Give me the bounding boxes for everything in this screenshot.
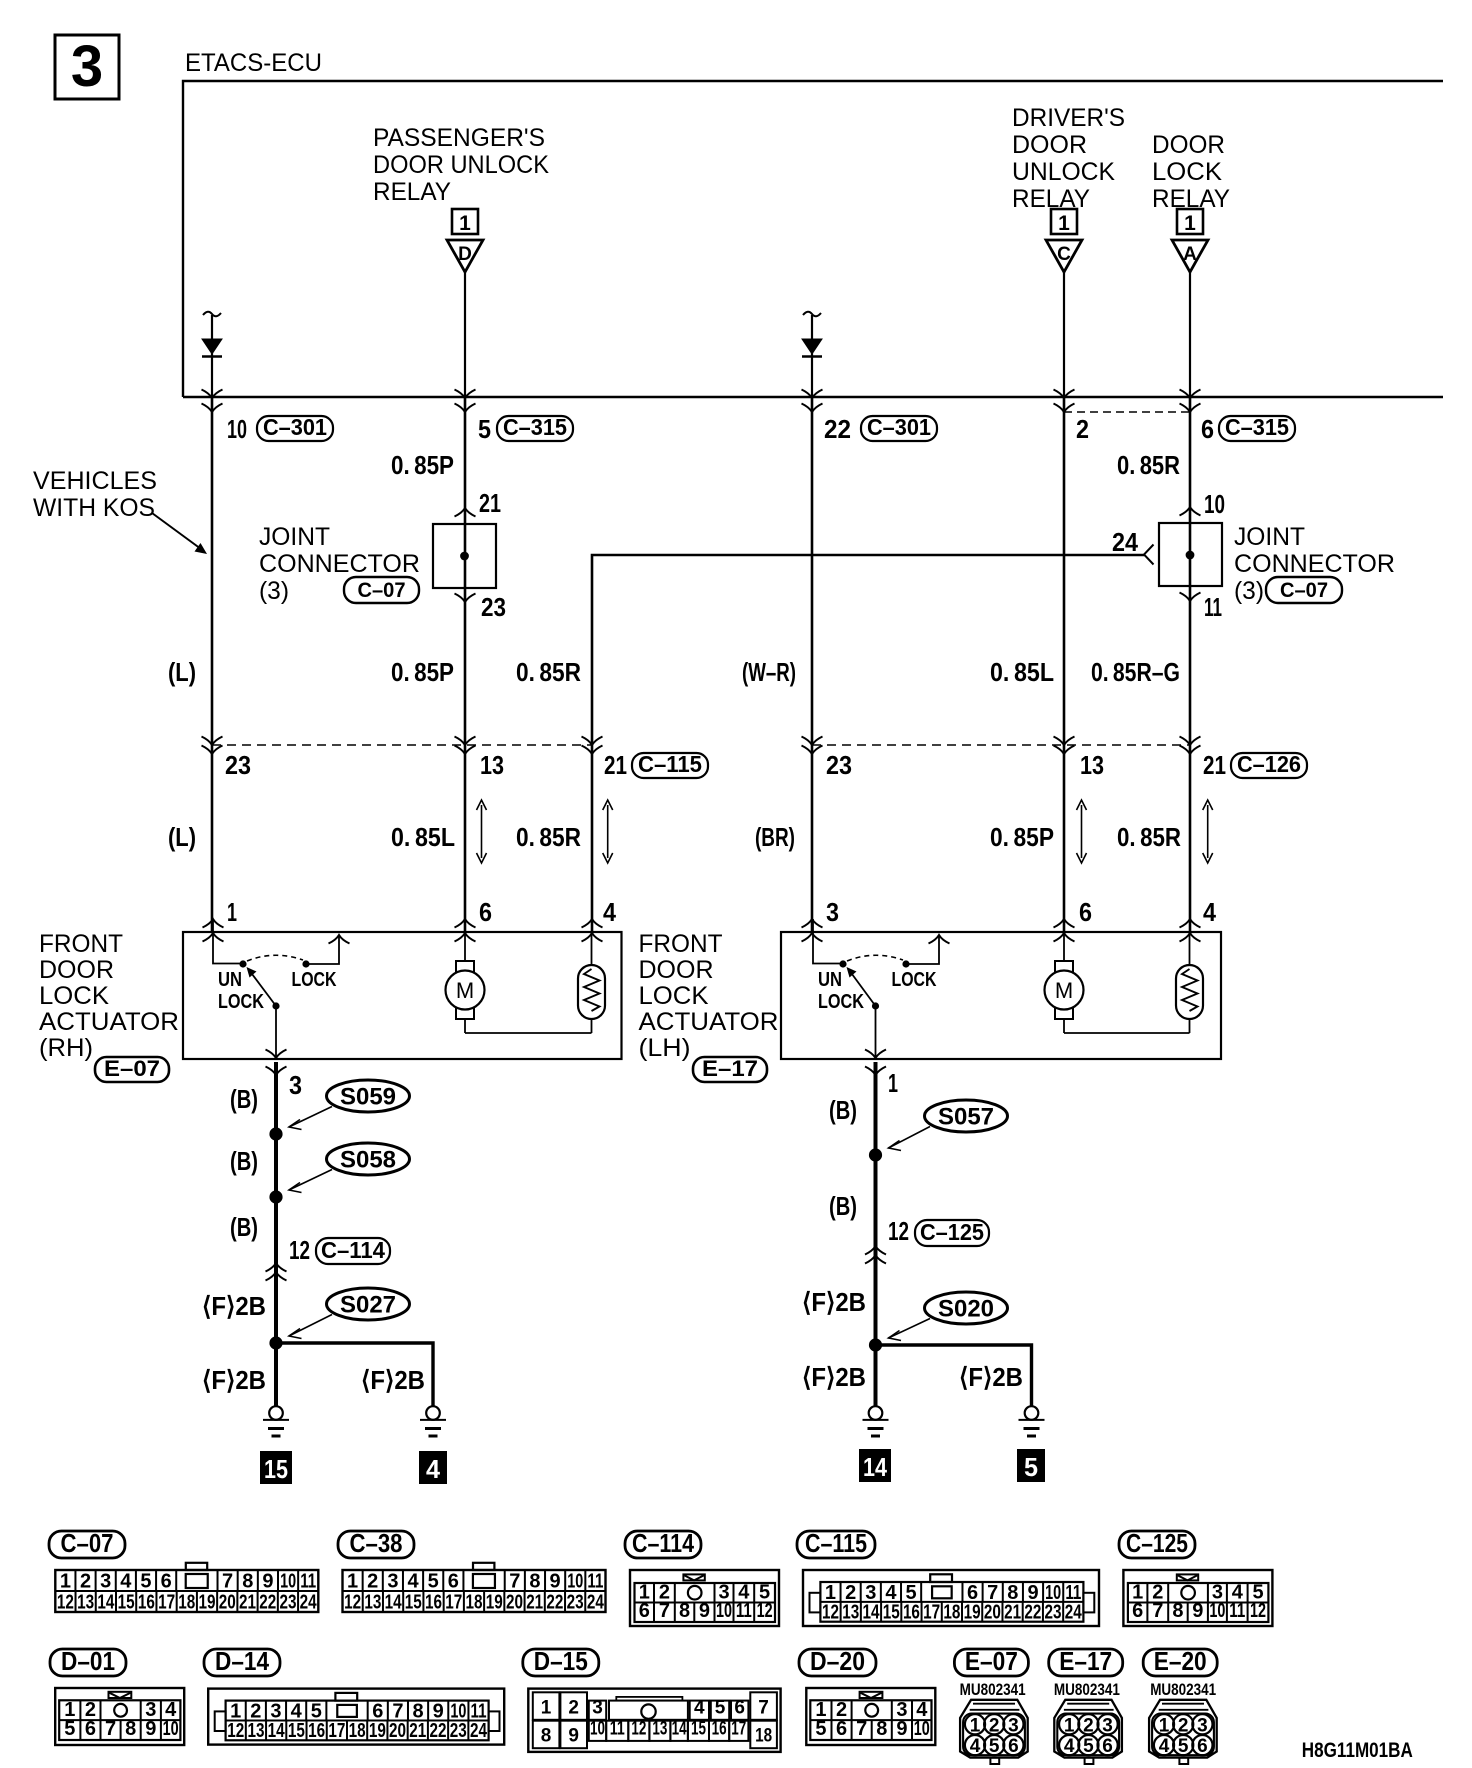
svg-text:⟨F⟩2B: ⟨F⟩2B xyxy=(202,1365,266,1395)
svg-text:D–14: D–14 xyxy=(215,1646,269,1676)
svg-text:6: 6 xyxy=(1079,897,1092,927)
svg-text:21: 21 xyxy=(1004,1602,1021,1624)
ETACS-ECU box outline (open right side) xyxy=(183,81,1443,397)
pin 24 label xyxy=(1112,527,1138,557)
svg-text:S059: S059 xyxy=(340,1084,396,1111)
svg-text:D–15: D–15 xyxy=(534,1646,588,1676)
svg-text:UN: UN xyxy=(218,969,242,991)
svg-text:24: 24 xyxy=(300,1592,318,1614)
connector view E-20 label xyxy=(1143,1646,1217,1676)
svg-text:C–301: C–301 xyxy=(263,414,327,440)
lock motor M actuator LH xyxy=(1045,933,1084,1033)
svg-text:LOCK: LOCK xyxy=(292,969,337,991)
svg-text:22: 22 xyxy=(546,1592,563,1614)
svg-text:5: 5 xyxy=(478,414,491,444)
branch wire to second ground right xyxy=(876,1345,1032,1406)
connector crossing arrows at ECU bottom edge xyxy=(202,390,1201,413)
svg-text:12: 12 xyxy=(888,1216,909,1246)
door lock relay symbol (1/A) xyxy=(1172,209,1208,272)
svg-text:MU802341: MU802341 xyxy=(1150,1680,1216,1699)
svg-text:C–38: C–38 xyxy=(350,1528,403,1558)
svg-text:16: 16 xyxy=(903,1602,920,1624)
FRONT DOOR LOCK ACTUATOR (LH) label xyxy=(639,930,779,1062)
pin label 3 actuator LH xyxy=(826,897,839,927)
wire color (B) 2 xyxy=(230,1146,258,1176)
svg-text:LOCK: LOCK xyxy=(39,982,109,1010)
svg-text:11: 11 xyxy=(300,1571,316,1593)
inline connector C-125 arrows xyxy=(865,1246,886,1264)
wire 10(C-301) KOS (L) left, x=212 xyxy=(211,397,214,932)
svg-text:LOCK: LOCK xyxy=(218,991,264,1013)
svg-text:0. 85L: 0. 85L xyxy=(391,822,455,852)
solenoid coil actuator LH xyxy=(1176,933,1203,1033)
wire size label 0.85R upper xyxy=(1117,450,1180,480)
svg-text:E–20: E–20 xyxy=(1154,1646,1207,1676)
svg-text:13: 13 xyxy=(652,1718,667,1739)
ETACS-ECU title xyxy=(185,49,322,77)
svg-text:0. 85R: 0. 85R xyxy=(1117,822,1181,852)
splice S058 xyxy=(289,1143,410,1193)
svg-text:M: M xyxy=(1055,978,1073,1003)
driver door unlock relay symbol (1/C) xyxy=(1046,209,1082,272)
junction dot S059 xyxy=(269,1127,282,1140)
svg-text:14: 14 xyxy=(385,1592,403,1614)
svg-text:9: 9 xyxy=(262,1571,273,1593)
DOOR LOCK RELAY label xyxy=(1152,131,1230,213)
svg-text:4: 4 xyxy=(426,1454,441,1484)
svg-text:12: 12 xyxy=(227,1720,244,1742)
dashed connector boundary line right (C-126) xyxy=(812,744,1190,746)
svg-text:9: 9 xyxy=(699,1600,710,1622)
svg-text:22: 22 xyxy=(824,414,851,444)
svg-text:13: 13 xyxy=(480,750,504,780)
svg-text:7: 7 xyxy=(1152,1600,1163,1622)
svg-text:(L): (L) xyxy=(168,822,196,852)
svg-text:18: 18 xyxy=(943,1602,960,1624)
svg-text:⟨F⟩2B: ⟨F⟩2B xyxy=(802,1287,866,1317)
pin label 4 actuator LH xyxy=(1203,897,1216,927)
svg-text:C–07: C–07 xyxy=(61,1528,114,1558)
svg-text:(B): (B) xyxy=(829,1095,857,1125)
ground wire (B) from actuator RH pin 3 xyxy=(274,1062,278,1406)
svg-text:8: 8 xyxy=(1172,1600,1183,1622)
svg-text:DOOR: DOOR xyxy=(39,956,114,984)
pin label 1 xyxy=(888,1068,898,1098)
svg-text:13: 13 xyxy=(1080,750,1104,780)
svg-text:JOINT: JOINT xyxy=(1234,523,1305,551)
svg-text:23: 23 xyxy=(279,1592,296,1614)
svg-text:S027: S027 xyxy=(340,1292,396,1319)
svg-text:4: 4 xyxy=(603,897,616,927)
DRIVER'S DOOR UNLOCK RELAY label xyxy=(1012,104,1125,213)
inline connector C-114 arrows xyxy=(266,1263,287,1281)
svg-text:(L): (L) xyxy=(168,657,196,687)
svg-text:(B): (B) xyxy=(230,1084,258,1114)
svg-text:3: 3 xyxy=(826,897,839,927)
svg-text:7: 7 xyxy=(222,1571,233,1593)
svg-text:CONNECTOR: CONNECTOR xyxy=(259,550,420,578)
wire color label (W-R) row1 xyxy=(742,657,796,687)
svg-text:7: 7 xyxy=(758,1697,769,1718)
svg-text:FRONT: FRONT xyxy=(39,930,123,958)
pin label 22 (C-301) xyxy=(824,414,937,444)
svg-text:6: 6 xyxy=(479,897,492,927)
svg-text:14: 14 xyxy=(97,1592,115,1614)
branch wire to second ground xyxy=(276,1343,433,1406)
svg-text:C–315: C–315 xyxy=(503,414,567,440)
pin 10 arrow into joint connector xyxy=(1180,507,1201,516)
svg-text:12: 12 xyxy=(344,1592,361,1614)
svg-text:MU802341: MU802341 xyxy=(1054,1680,1120,1699)
svg-text:LOCK: LOCK xyxy=(818,991,864,1013)
svg-text:12: 12 xyxy=(631,1718,646,1739)
svg-text:C–114: C–114 xyxy=(321,1237,385,1263)
wire label F 2B 1 xyxy=(202,1291,266,1321)
svg-text:21: 21 xyxy=(526,1592,543,1614)
JOINT CONNECTOR (3) C-07 label left xyxy=(259,523,420,605)
svg-text:24: 24 xyxy=(587,1592,605,1614)
joint connector C-07 (right) box xyxy=(1159,523,1222,586)
svg-text:(LH): (LH) xyxy=(639,1034,691,1062)
svg-text:5: 5 xyxy=(715,1697,726,1718)
svg-text:C–115: C–115 xyxy=(638,751,702,777)
connector view C-38 pinout xyxy=(343,1563,606,1614)
svg-text:D: D xyxy=(458,244,472,265)
E-17 tag xyxy=(693,1056,767,1082)
svg-text:20: 20 xyxy=(219,1592,236,1614)
svg-text:3: 3 xyxy=(100,1571,111,1593)
svg-text:21: 21 xyxy=(1203,750,1226,780)
svg-text:2: 2 xyxy=(1076,414,1089,444)
svg-text:(3): (3) xyxy=(259,577,289,605)
svg-text:23: 23 xyxy=(567,1592,584,1614)
svg-text:1: 1 xyxy=(459,212,471,235)
svg-text:9: 9 xyxy=(1192,1600,1203,1622)
svg-text:11: 11 xyxy=(1204,592,1222,622)
exit arrows actuator LH pin 1 xyxy=(865,1050,886,1076)
svg-text:10: 10 xyxy=(567,1571,583,1593)
UN LOCK / LOCK labels RH xyxy=(218,969,337,1013)
svg-text:6: 6 xyxy=(448,1571,459,1593)
pin 11 arrow out of joint connector xyxy=(1180,593,1201,602)
svg-text:0. 85L: 0. 85L xyxy=(990,657,1054,687)
svg-text:19: 19 xyxy=(964,1602,981,1624)
svg-text:18: 18 xyxy=(466,1592,483,1614)
svg-text:⟨F⟩2B: ⟨F⟩2B xyxy=(202,1291,266,1321)
pin 21 label xyxy=(479,488,501,518)
svg-text:ACTUATOR: ACTUATOR xyxy=(639,1008,779,1036)
svg-text:15: 15 xyxy=(405,1592,422,1614)
svg-text:MU802341: MU802341 xyxy=(960,1680,1026,1699)
connector view E-17 pinout xyxy=(1054,1700,1122,1764)
svg-text:18: 18 xyxy=(178,1592,195,1614)
pin 10 label xyxy=(1204,489,1225,519)
wire 22(C-301) (W-R) right, x=812 xyxy=(811,397,814,932)
svg-text:10: 10 xyxy=(716,1600,732,1622)
junction dot S020 xyxy=(869,1338,882,1351)
wire 6(C-315) 0.85R door lock, x=1190 xyxy=(1189,397,1192,932)
svg-text:(3): (3) xyxy=(1234,577,1264,605)
lock motor M actuator RH xyxy=(446,933,485,1033)
pin label 13 (left) xyxy=(480,750,504,780)
svg-text:(B): (B) xyxy=(230,1146,258,1176)
crossing arrows at dashed boundary xyxy=(202,737,1201,755)
svg-text:14: 14 xyxy=(672,1718,687,1739)
junction dot S058 xyxy=(269,1190,282,1203)
junction dot S057 xyxy=(869,1148,882,1161)
svg-text:ETACS-ECU: ETACS-ECU xyxy=(185,49,322,77)
svg-text:3: 3 xyxy=(592,1697,603,1718)
svg-text:20: 20 xyxy=(389,1720,406,1742)
svg-text:E–17: E–17 xyxy=(1059,1646,1112,1676)
svg-text:4: 4 xyxy=(120,1571,132,1593)
svg-text:D–20: D–20 xyxy=(810,1646,865,1676)
svg-text:16: 16 xyxy=(712,1718,727,1739)
pin label 2 xyxy=(1076,414,1089,444)
svg-text:23: 23 xyxy=(481,592,506,622)
svg-text:15: 15 xyxy=(691,1718,706,1739)
svg-text:12: 12 xyxy=(757,1600,773,1622)
wire size label 0.85L row2 xyxy=(391,822,455,852)
svg-text:WITH KOS: WITH KOS xyxy=(33,494,155,522)
PASSENGER'S DOOR UNLOCK RELAY label xyxy=(373,124,549,206)
JOINT CONNECTOR (3) C-07 label right xyxy=(1234,523,1395,605)
svg-text:15: 15 xyxy=(288,1720,305,1742)
svg-text:C–125: C–125 xyxy=(1126,1528,1188,1558)
svg-text:12: 12 xyxy=(57,1592,74,1614)
svg-text:23: 23 xyxy=(1045,1602,1062,1624)
entry arrows at actuator top edges xyxy=(203,919,1201,942)
svg-text:C–315: C–315 xyxy=(1225,414,1289,440)
pin 23 label xyxy=(481,592,506,622)
door lock switch inside actuator LH xyxy=(813,919,950,1059)
svg-text:10: 10 xyxy=(914,1718,930,1740)
svg-text:D–01: D–01 xyxy=(61,1646,115,1676)
E-07 tag xyxy=(95,1056,169,1082)
splice S057 xyxy=(889,1100,1008,1151)
dashed connector boundary line left (C-115) xyxy=(212,744,592,746)
connector view C-38 label xyxy=(338,1528,414,1558)
svg-text:DRIVER'S: DRIVER'S xyxy=(1012,104,1125,132)
svg-text:13: 13 xyxy=(364,1592,381,1614)
two-way arrow marker 4 xyxy=(1203,800,1213,863)
connector view D-20 label xyxy=(799,1646,876,1676)
svg-text:17: 17 xyxy=(158,1592,175,1614)
svg-text:S058: S058 xyxy=(340,1147,396,1174)
wire 2 / 0.85L driver unlock, x=1064 xyxy=(1063,397,1066,932)
pin label 13 (right) xyxy=(1080,750,1104,780)
svg-text:1: 1 xyxy=(347,1571,358,1593)
svg-text:17: 17 xyxy=(445,1592,462,1614)
front door lock actuator LH box xyxy=(781,932,1221,1059)
ground 14 xyxy=(863,1406,889,1436)
svg-text:S020: S020 xyxy=(938,1296,994,1323)
svg-text:ACTUATOR: ACTUATOR xyxy=(39,1008,179,1036)
arrowhead at joint connector pin 24 xyxy=(1144,545,1154,565)
svg-text:7: 7 xyxy=(659,1600,670,1622)
connector view C-114 label xyxy=(625,1528,701,1558)
pin label 12 with C-125 tag xyxy=(888,1216,989,1246)
svg-text:DOOR: DOOR xyxy=(1012,131,1087,159)
svg-text:16: 16 xyxy=(138,1592,155,1614)
svg-text:17: 17 xyxy=(731,1718,746,1739)
door lock switch inside actuator RH xyxy=(213,919,350,1059)
pin 11 label xyxy=(1204,592,1222,622)
E-20 part number MU802341 xyxy=(1150,1680,1216,1699)
svg-text:6: 6 xyxy=(85,1718,96,1740)
svg-text:12: 12 xyxy=(822,1602,839,1624)
two-way arrow marker 3 xyxy=(1077,800,1087,863)
diode on KOS line (right) with wire stub xyxy=(802,312,822,397)
svg-text:12: 12 xyxy=(289,1235,310,1265)
connector view E-20 pinout xyxy=(1149,1700,1217,1764)
pin 21 arrow into joint connector xyxy=(455,508,476,517)
svg-text:UN: UN xyxy=(818,969,842,991)
ground wire (B) from actuator LH pin 1 xyxy=(874,1062,878,1406)
svg-text:7: 7 xyxy=(856,1718,867,1740)
splice S027 xyxy=(289,1288,410,1339)
svg-text:14: 14 xyxy=(863,1452,887,1482)
svg-text:1: 1 xyxy=(1184,212,1196,235)
svg-text:14: 14 xyxy=(862,1602,880,1624)
svg-text:21: 21 xyxy=(409,1720,426,1742)
svg-text:6: 6 xyxy=(161,1571,172,1593)
svg-text:C: C xyxy=(1057,244,1071,265)
svg-text:3: 3 xyxy=(289,1070,302,1100)
svg-text:8: 8 xyxy=(541,1726,552,1747)
pin label 6 actuator RH xyxy=(479,897,492,927)
svg-text:LOCK: LOCK xyxy=(639,982,709,1010)
wire color (B) right 2 xyxy=(829,1191,857,1221)
svg-text:E–07: E–07 xyxy=(965,1646,1018,1676)
svg-text:5: 5 xyxy=(1024,1452,1038,1482)
pin label 3 xyxy=(289,1070,302,1100)
svg-text:22: 22 xyxy=(1024,1602,1041,1624)
svg-text:FRONT: FRONT xyxy=(639,930,723,958)
svg-text:DOOR: DOOR xyxy=(1152,131,1225,159)
svg-text:PASSENGER'S: PASSENGER'S xyxy=(373,124,545,152)
svg-text:DOOR: DOOR xyxy=(639,956,714,984)
wire size label 0.85P row1 xyxy=(391,657,454,687)
wire size label 0.85R row2 left xyxy=(516,822,581,852)
svg-text:8: 8 xyxy=(242,1571,253,1593)
svg-text:E–17: E–17 xyxy=(702,1056,758,1081)
E-17 part number MU802341 xyxy=(1054,1680,1120,1699)
svg-text:2: 2 xyxy=(80,1571,91,1593)
svg-text:11: 11 xyxy=(587,1571,603,1593)
splice S059 xyxy=(289,1080,410,1130)
svg-text:3: 3 xyxy=(71,34,103,99)
wire: ETACS internal from driver unlock relay down xyxy=(1063,272,1065,397)
dashed link between pins 2 and 6 below ECU xyxy=(1064,411,1190,413)
svg-text:LOCK: LOCK xyxy=(892,969,937,991)
svg-text:10: 10 xyxy=(163,1718,179,1740)
svg-text:23: 23 xyxy=(450,1720,467,1742)
svg-text:5: 5 xyxy=(815,1718,826,1740)
wire label F 2B right 1 xyxy=(802,1287,866,1317)
svg-text:18: 18 xyxy=(349,1720,366,1742)
svg-text:20: 20 xyxy=(984,1602,1001,1624)
svg-text:13: 13 xyxy=(247,1720,264,1742)
svg-text:E–07: E–07 xyxy=(104,1056,160,1081)
connector view D-15 pinout xyxy=(528,1689,780,1752)
ground 15 xyxy=(263,1406,289,1436)
passenger door unlock relay symbol (1/D) xyxy=(447,209,483,272)
front door lock actuator RH box xyxy=(183,932,622,1059)
svg-text:6: 6 xyxy=(734,1697,745,1718)
svg-text:6: 6 xyxy=(1201,414,1214,444)
svg-text:14: 14 xyxy=(268,1720,286,1742)
pin label 5 (C-315) xyxy=(478,414,573,444)
svg-text:JOINT: JOINT xyxy=(259,523,330,551)
connector view C-114 pinout xyxy=(630,1570,779,1626)
connector view C-115 pinout xyxy=(803,1570,1099,1626)
svg-text:0. 85P: 0. 85P xyxy=(391,657,454,687)
svg-text:24: 24 xyxy=(1065,1602,1083,1624)
svg-text:A: A xyxy=(1183,244,1197,265)
svg-text:C–07: C–07 xyxy=(358,579,406,602)
connector view C-125 label xyxy=(1119,1528,1195,1558)
svg-text:UNLOCK: UNLOCK xyxy=(1012,158,1115,186)
ground id 5 xyxy=(1017,1449,1045,1482)
svg-text:C–126: C–126 xyxy=(1237,751,1301,777)
connector view C-07 label xyxy=(49,1528,125,1558)
wire color label (L) row1 xyxy=(168,657,196,687)
svg-text:4: 4 xyxy=(407,1571,419,1593)
svg-text:9: 9 xyxy=(896,1718,907,1740)
pin 23 arrow out of joint connector xyxy=(455,594,476,603)
svg-text:8: 8 xyxy=(876,1718,887,1740)
svg-text:VEHICLES: VEHICLES xyxy=(33,467,157,495)
svg-text:12: 12 xyxy=(1250,1600,1266,1622)
svg-text:1: 1 xyxy=(541,1697,552,1718)
svg-text:0. 85R: 0. 85R xyxy=(1117,450,1180,480)
FRONT DOOR LOCK ACTUATOR (RH) label xyxy=(39,930,179,1062)
wire: ETACS internal from passenger unlock relay down xyxy=(464,272,466,397)
pin label 23 below C-115 line xyxy=(225,750,251,780)
connector view D-20 pinout xyxy=(806,1688,935,1745)
svg-text:0. 85R: 0. 85R xyxy=(516,822,581,852)
VEHICLES WITH KOS note xyxy=(33,467,157,522)
pin label 21 with C-126 tag xyxy=(1203,750,1307,780)
wire label F 2B right 3 xyxy=(959,1362,1023,1392)
two-way arrow marker 2 xyxy=(603,800,613,863)
wire color label (BR) row2 xyxy=(755,822,795,852)
svg-text:C–115: C–115 xyxy=(805,1528,867,1558)
wire size label 0.85R row2 right xyxy=(1117,822,1181,852)
svg-text:2: 2 xyxy=(367,1571,378,1593)
link wire motor-coil RH xyxy=(465,1032,592,1034)
wire size label 0.85P upper xyxy=(391,450,454,480)
ground 4 xyxy=(420,1406,446,1436)
svg-text:6: 6 xyxy=(639,1600,650,1622)
svg-text:21: 21 xyxy=(604,750,627,780)
svg-text:3: 3 xyxy=(387,1571,398,1593)
svg-text:0. 85P: 0. 85P xyxy=(391,450,454,480)
pin label 21 with C-115 tag xyxy=(604,750,708,780)
svg-text:(W–R): (W–R) xyxy=(742,657,796,687)
ground id 14 xyxy=(859,1449,891,1482)
svg-text:⟨F⟩2B: ⟨F⟩2B xyxy=(361,1365,425,1395)
svg-text:11: 11 xyxy=(1229,1600,1245,1622)
svg-text:13: 13 xyxy=(77,1592,94,1614)
connector view D-15 label xyxy=(523,1646,599,1676)
svg-text:22: 22 xyxy=(430,1720,447,1742)
svg-text:19: 19 xyxy=(369,1720,386,1742)
svg-text:9: 9 xyxy=(550,1571,561,1593)
svg-text:19: 19 xyxy=(486,1592,503,1614)
svg-text:6: 6 xyxy=(836,1718,847,1740)
